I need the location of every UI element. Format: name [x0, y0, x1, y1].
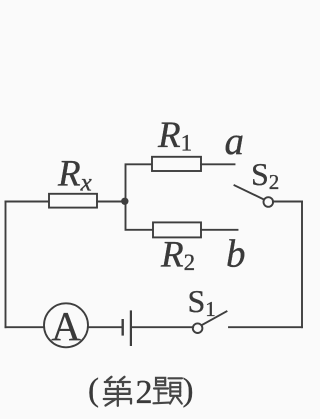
- wire junction up to R1 branch: [126, 164, 153, 201]
- wire bottom-right to S1 contact: [229, 326, 302, 328]
- wire Rx rail left: [6, 201, 50, 203]
- switch S2 pivot: [264, 197, 274, 207]
- switch S1 pivot: [193, 323, 203, 333]
- battery long plate: [130, 312, 132, 345]
- resistor Rx: [49, 194, 97, 208]
- junction node dot: [121, 198, 128, 205]
- caption hanzi DI (第): [104, 377, 131, 406]
- wire junction down to R2 branch: [126, 202, 154, 230]
- resistor R1: [152, 157, 201, 171]
- wire right vertical side: [301, 202, 303, 328]
- switch S2 blade: [235, 185, 265, 200]
- svg-text:a: a: [225, 120, 245, 163]
- svg-text:S2: S2: [251, 156, 279, 194]
- svg-text:(: (: [88, 373, 99, 409]
- wire S2 to right side: [273, 201, 302, 203]
- wire R2 to terminal b: [201, 229, 238, 231]
- svg-text:2: 2: [136, 374, 153, 411]
- svg-text:Rx: Rx: [57, 154, 92, 197]
- svg-text:S1: S1: [188, 283, 216, 321]
- wire ammeter to battery: [88, 326, 122, 328]
- switch S1 blade: [202, 311, 227, 325]
- wire battery to S1: [132, 326, 193, 328]
- wire bottom-left to ammeter: [6, 326, 45, 328]
- battery short plate: [121, 320, 123, 334]
- wire R1 to terminal a: [201, 163, 235, 165]
- svg-text:): ): [183, 373, 194, 409]
- resistor R2: [153, 222, 201, 237]
- svg-text:R2: R2: [160, 235, 195, 276]
- svg-text:R1: R1: [157, 115, 192, 156]
- svg-text:b: b: [226, 233, 246, 276]
- svg-text:A: A: [51, 303, 81, 349]
- ammeter circle: [44, 303, 88, 347]
- wire left vertical side: [5, 202, 7, 328]
- wire Rx to junction: [97, 201, 126, 203]
- caption hanzi TI (题): [154, 378, 183, 404]
